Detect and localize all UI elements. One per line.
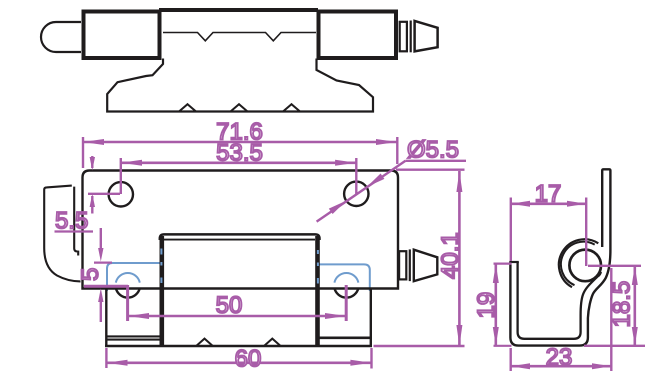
top view: barrel bottom line with V notches: [163, 33, 316, 41]
side view: upper leaf strip and U channel outer: [510, 169, 610, 345]
dimension 60 extension lines: [106, 348, 371, 369]
dimension 18.5 line: [633, 266, 636, 346]
top view: mounting bracket outline: [107, 59, 373, 112]
front view: lower hole left visible arc: [116, 288, 140, 298]
dimension 17 extension lines: [511, 198, 586, 267]
svg-text:Ø5.5: Ø5.5: [407, 137, 459, 164]
svg-text:40.1: 40.1: [437, 232, 464, 279]
svg-text:17: 17: [535, 181, 562, 208]
dimension 23 extension lines: [511, 268, 612, 371]
dimension 5 arrows: [100, 228, 102, 322]
svg-text:50: 50: [216, 292, 243, 319]
front view: pin tip washer line: [409, 249, 411, 281]
svg-text:60: 60: [235, 346, 262, 373]
dimension 17 arrows: [511, 201, 530, 207]
dimension 40.1 arrows: [456, 171, 462, 192]
side view: curl second arc: [561, 242, 595, 285]
front view: lower hole right visible arc: [334, 288, 358, 298]
side view: pin circle: [569, 250, 601, 282]
dimension 23 line: [511, 365, 612, 368]
dimension 50 arrows: [128, 313, 149, 319]
dimension 60 arrows: [106, 360, 127, 366]
dimension 50 line: [128, 315, 346, 318]
dimension 18.5 arrows: [632, 266, 638, 285]
dimension 23 arrows: [511, 363, 530, 369]
dimension 53.5 line: [121, 162, 356, 165]
top view: right knuckle block: [319, 12, 397, 59]
front view: flange left edge: [105, 289, 107, 346]
dimension diameter 5.5 leader: [317, 161, 406, 222]
dimension 5 tick at slot top: [94, 262, 112, 264]
front view: tongue right edge: [315, 236, 320, 346]
top view: hinge pin capsule end (left): [41, 22, 81, 52]
dimension 40.1 extension lines: [374, 170, 465, 346]
front view: hidden slot right (blue): [318, 264, 370, 291]
front view: tongue top inner line: [164, 239, 315, 241]
dimension 50 extension lines: [128, 285, 347, 321]
svg-text:18.5: 18.5: [609, 281, 636, 328]
dimension 19 extension lines: [494, 264, 512, 346]
svg-text:5: 5: [77, 268, 104, 281]
top view: bracket triangle mark 3: [283, 104, 300, 111]
front view: flange triangle mark 1: [196, 339, 213, 346]
top view: bracket triangle mark 2: [231, 104, 248, 111]
dimension 5 extension at hole centre: [84, 285, 128, 288]
front view: hidden slot dashes over tongue right edge (blue): [317, 250, 319, 284]
front view: pin tip neck: [399, 251, 406, 279]
front view: hidden slot dashes over tongue left edge (blue): [160, 249, 162, 284]
top view: pin tip neck: [400, 22, 407, 52]
dimension 18.5 extension lines: [584, 266, 645, 346]
side view: curl outer arc: [559, 239, 598, 287]
dimension 5.5 text underline: [55, 230, 94, 232]
top view: left knuckle block: [84, 12, 160, 59]
front view: main plate: [83, 171, 399, 289]
top view: barrel top edge: [159, 8, 318, 12]
front view: lower hole left hidden arc (blue): [116, 273, 140, 283]
dimension 17 line: [511, 203, 586, 206]
front view: flange bottom edge: [105, 345, 372, 348]
front view: flange triangle mark 2: [264, 339, 281, 346]
front view: tongue left edge: [160, 236, 165, 346]
svg-text:23: 23: [546, 344, 573, 371]
dimension 19 arrows: [493, 264, 499, 283]
side view: U channel inner: [518, 262, 601, 339]
front view: left spring hook inner edge: [74, 187, 78, 256]
dimension 60 line: [106, 361, 371, 364]
top view: bracket triangle mark 1: [179, 104, 196, 111]
top view: pin tip washer line: [410, 21, 412, 53]
dimension 71.6 line: [83, 141, 398, 144]
dimension 53.5 extension lines: [121, 158, 356, 194]
dimension 71.6 extension lines: [83, 137, 397, 168]
front view: upper hole left: [109, 182, 133, 206]
side view: channel top cap: [509, 261, 519, 263]
dimension 5.5 (hole offset) arrows and lines: [91, 156, 93, 214]
dimension diameter 5.5 arrows: [329, 201, 347, 214]
svg-text:53.5: 53.5: [216, 139, 263, 166]
dimension 19 line: [494, 264, 497, 346]
front view: flange right edge: [370, 289, 372, 346]
front view: flange ledge lines left: [106, 336, 160, 339]
front view: pin tip cone: [414, 250, 438, 281]
dimension 40.1 line: [458, 171, 461, 346]
front view: tongue top outer: [160, 234, 320, 240]
front view: hidden slot left (blue): [107, 263, 162, 291]
dimension 53.5 arrows: [121, 160, 142, 166]
svg-text:19: 19: [473, 292, 500, 319]
front view: lower hole right hidden arc (blue): [334, 273, 358, 283]
top view: pin tip cone: [415, 21, 438, 52]
dimension 71.6 arrows: [83, 139, 104, 145]
front view: upper hole right: [344, 182, 368, 206]
front view: left spring hook outer: [44, 186, 80, 282]
front view: flange ledge line right: [319, 336, 371, 339]
dimension diameter 5.5 underline: [406, 160, 467, 162]
dimension 5.5 extension to hole centre: [88, 193, 120, 195]
